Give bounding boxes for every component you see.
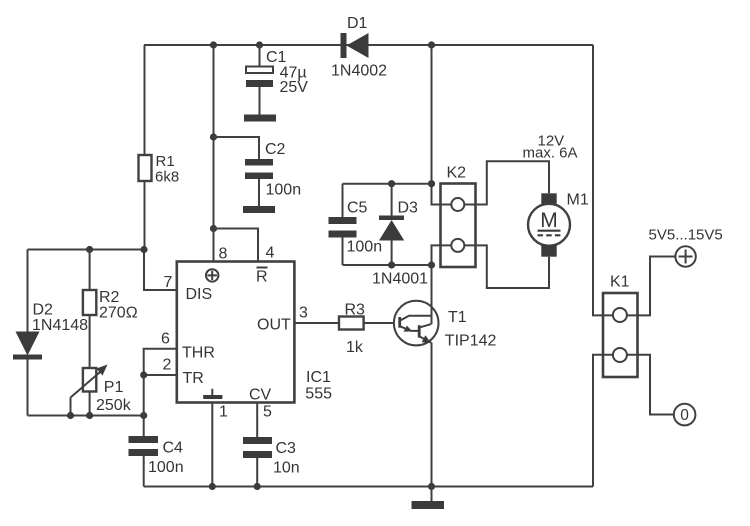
svg-text:P1: P1 [104, 379, 124, 396]
svg-text:5: 5 [263, 404, 272, 421]
svg-text:R3: R3 [345, 302, 366, 319]
wire T1 collector [431, 265, 433, 324]
diode D2 [13, 250, 88, 416]
diode D3 [372, 184, 428, 288]
svg-text:7: 7 [164, 274, 173, 291]
wire K2 upper to motor [464, 161, 549, 204]
resistor R1 [139, 153, 180, 186]
svg-text:CV: CV [249, 387, 272, 404]
wire pin 7 DIS [144, 250, 177, 291]
svg-text:C2: C2 [265, 141, 286, 158]
svg-text:D3: D3 [398, 200, 419, 217]
node D3 bottom [388, 261, 395, 268]
svg-text:K2: K2 [447, 165, 467, 182]
wire pin 4 jog [214, 229, 259, 262]
wire bottom bus D2/P1/TR [28, 415, 144, 417]
svg-text:6: 6 [161, 331, 170, 348]
node D3 top [388, 180, 395, 187]
svg-text:4: 4 [266, 245, 275, 262]
node wiper junction [67, 412, 74, 419]
svg-text:C3: C3 [276, 440, 297, 457]
wire THR pin 6 [144, 349, 177, 416]
node top rail / pin8 line [210, 41, 217, 48]
terminal plus [675, 246, 695, 266]
wire bottom ground rail [144, 486, 593, 488]
wire C2 branch [214, 137, 260, 159]
wire top supply rail [144, 44, 593, 46]
node TR junction [140, 371, 147, 378]
svg-text:0: 0 [680, 407, 689, 424]
motor M1 [528, 192, 589, 257]
IC plus symbol [206, 269, 218, 281]
node pin4 branch [210, 225, 217, 232]
wire right vertical bottom (0V to K1) [593, 355, 613, 487]
svg-text:270Ω: 270Ω [99, 305, 138, 322]
diode D1 [331, 15, 387, 80]
wire R1 top lead [144, 45, 146, 155]
wire right vertical top (supply to K1) [593, 45, 613, 315]
resistor R2 [83, 250, 138, 369]
svg-text:100n: 100n [347, 239, 383, 256]
svg-text:100n: 100n [266, 182, 302, 199]
svg-text:555: 555 [305, 385, 332, 402]
svg-text:IC1: IC1 [306, 369, 331, 386]
node emitter/ground junction [428, 483, 435, 490]
resistor R3 [294, 302, 394, 357]
svg-text:R2: R2 [99, 289, 120, 306]
ground bar C2 [243, 206, 275, 213]
ground bar C1 [244, 115, 276, 122]
node C3 rail [254, 483, 261, 490]
capacitor C5 [329, 184, 383, 265]
wire supply branch to K2 [432, 45, 452, 205]
wire main vertical pin 8 [213, 45, 215, 262]
wire K1 upper to plus terminal [626, 257, 675, 316]
svg-text:M1: M1 [567, 192, 589, 209]
IC pin1 internal ground mark [203, 389, 222, 399]
ground symbol [412, 487, 445, 510]
svg-text:10n: 10n [273, 460, 300, 477]
svg-text:1N4001: 1N4001 [372, 271, 428, 288]
svg-text:25V: 25V [280, 79, 309, 96]
svg-text:C5: C5 [347, 200, 368, 217]
svg-text:THR: THR [182, 345, 215, 362]
capacitor C1 [246, 41, 308, 114]
svg-text:8: 8 [219, 246, 228, 263]
svg-text:C4: C4 [163, 440, 184, 457]
svg-text:250k: 250k [96, 397, 132, 414]
node pin1 rail [209, 483, 216, 490]
svg-text:OUT: OUT [257, 317, 291, 334]
capacitor C2 [245, 141, 301, 206]
node bus/C4 junction [140, 412, 147, 419]
svg-text:D1: D1 [347, 15, 368, 32]
node collector junction [428, 261, 435, 268]
svg-text:D2: D2 [33, 302, 54, 319]
svg-text:1k: 1k [346, 339, 364, 356]
wire pin 5 to C3 [256, 403, 258, 438]
svg-text:1N4148: 1N4148 [32, 317, 88, 334]
svg-text:R1: R1 [156, 153, 175, 170]
svg-text:T1: T1 [448, 309, 467, 326]
wire C5/D3 bottom [343, 264, 432, 266]
svg-text:TR: TR [183, 370, 204, 387]
wire R1 bottom lead [144, 181, 146, 250]
transistor T1 [394, 301, 497, 350]
wire pin 1 to rail [211, 403, 213, 487]
svg-text:100n: 100n [148, 459, 184, 476]
potentiometer P1 [71, 365, 132, 416]
svg-text:max. 6A: max. 6A [523, 145, 578, 162]
capacitor C3 [243, 437, 300, 487]
wire TR pin 2 [144, 374, 177, 376]
svg-text:DIS: DIS [186, 286, 213, 303]
wire K2 lower to motor [464, 245, 549, 288]
svg-text:TIP142: TIP142 [445, 333, 497, 350]
wire K2 lower left lead [432, 245, 452, 265]
connector K2 [441, 165, 476, 268]
node C2 branch [210, 133, 217, 140]
wire D2/R2 top horizontal [28, 249, 145, 251]
wire C5/D3 top [343, 183, 432, 185]
IC1 555 box [177, 262, 332, 403]
IC reset Rbar label [256, 268, 268, 286]
wire T1 emitter [431, 343, 433, 487]
svg-text:6k8: 6k8 [155, 169, 179, 186]
node junction R2 top [86, 246, 93, 253]
svg-text:M: M [540, 209, 558, 232]
svg-text:2: 2 [163, 357, 172, 374]
svg-text:K1: K1 [610, 274, 630, 291]
node C5/D3 top junction [428, 180, 435, 187]
capacitor C4 [129, 416, 184, 487]
node D1 junction top rail [428, 41, 435, 48]
svg-text:R: R [256, 269, 268, 286]
wire K1 lower to 0 terminal [626, 355, 673, 415]
svg-text:1: 1 [219, 404, 228, 421]
node P1 bottom junction [86, 412, 93, 419]
svg-text:1N4002: 1N4002 [331, 63, 387, 80]
svg-text:5V5...15V5: 5V5...15V5 [649, 227, 723, 244]
terminal 0 [674, 404, 696, 426]
svg-text:C1: C1 [266, 49, 287, 66]
svg-text:3: 3 [299, 305, 308, 322]
connector K1 [603, 274, 638, 378]
node junction R1/pin7 [140, 246, 147, 253]
